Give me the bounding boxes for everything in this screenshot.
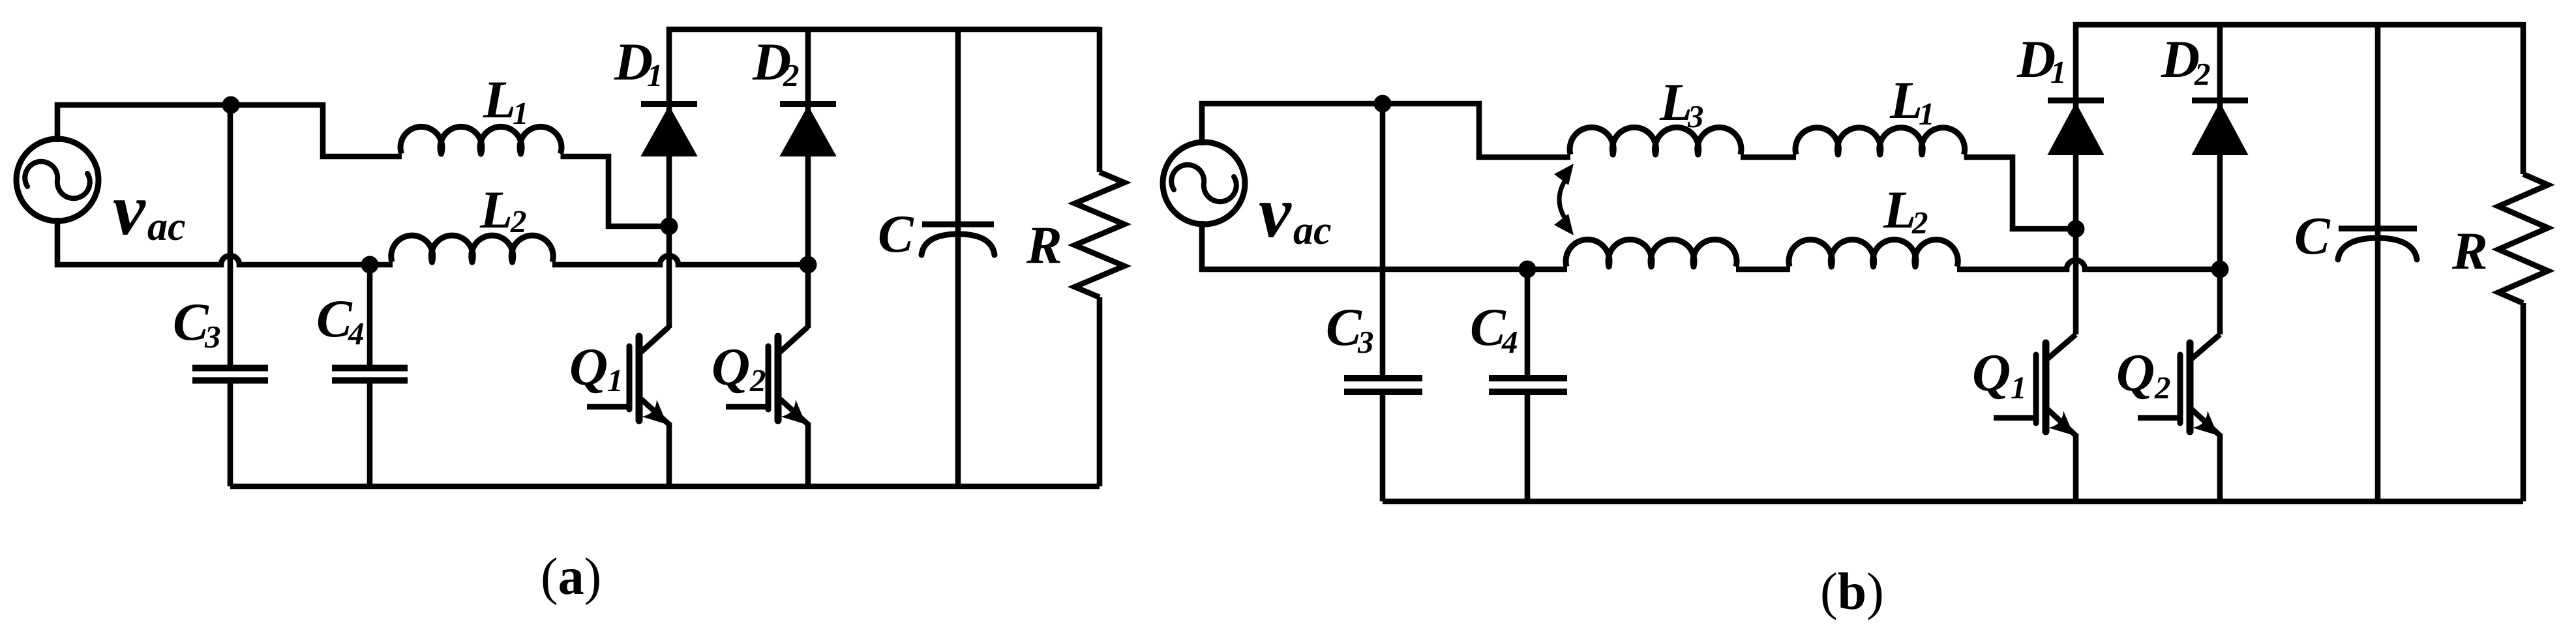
- wire L3 to L1 (b): [1741, 155, 1796, 160]
- capacitor C3 (a): [192, 105, 268, 486]
- svg-text:L: L: [1889, 70, 1923, 130]
- svg-text:1: 1: [607, 362, 623, 398]
- label L3: [1659, 72, 1704, 134]
- svg-text:Q: Q: [711, 337, 750, 396]
- label D1: [2016, 29, 2067, 90]
- svg-text:L: L: [479, 180, 513, 239]
- transistor Q2 IGBT (a): [726, 327, 808, 486]
- label Q2: [711, 337, 766, 398]
- label D2: [2161, 29, 2211, 92]
- diode D2 (a): [780, 27, 836, 328]
- wire vac bottom crossing C3 to node C4 (b): [1202, 221, 1567, 269]
- label L1: [1889, 70, 1935, 132]
- top rail (b): [2073, 22, 2523, 28]
- svg-text:C: C: [1326, 297, 1362, 357]
- wire vac bottom with hop over C3 (a): [57, 218, 393, 265]
- wire L2 to D2 node with hop over D1 branch (b): [1957, 260, 2220, 269]
- svg-text:C: C: [173, 292, 209, 351]
- diode D1 (a): [641, 27, 697, 328]
- inductor L1 (a): [400, 126, 562, 154]
- node top-left junction (b): [1374, 95, 1392, 113]
- label Q1: [1972, 343, 2027, 406]
- svg-text:2: 2: [510, 203, 527, 239]
- bottom rail (b): [1383, 499, 2523, 505]
- bottom rail (a): [230, 484, 1100, 490]
- label vac (b): [1259, 172, 1332, 253]
- svg-text:v: v: [113, 170, 146, 250]
- svg-text:1: 1: [2050, 54, 2067, 90]
- transistor Q1 IGBT (b): [1994, 334, 2076, 501]
- svg-text:(a): (a): [541, 548, 601, 606]
- node A top-left junction (a): [222, 96, 240, 114]
- label L2: [479, 180, 527, 239]
- svg-text:C: C: [1470, 297, 1506, 357]
- label Q1: [569, 337, 623, 398]
- node L1-D1-Q1 junction (a): [661, 218, 678, 235]
- svg-text:3: 3: [204, 319, 221, 355]
- svg-text:2: 2: [1911, 205, 1928, 241]
- svg-text:1: 1: [513, 95, 529, 131]
- svg-text:R: R: [2451, 221, 2488, 280]
- svg-text:ac: ac: [1293, 209, 1332, 253]
- coupling arrow between L3 and L2 (b): [1554, 164, 1574, 235]
- svg-text:Q: Q: [1972, 343, 2011, 402]
- svg-text:4: 4: [1501, 324, 1518, 360]
- capacitor C3 (b): [1344, 104, 1422, 501]
- top rail (a): [666, 27, 1100, 33]
- svg-text:C: C: [878, 204, 914, 263]
- label D2: [752, 32, 800, 93]
- resistor R load (a): [1075, 27, 1124, 486]
- diode D2 (b): [2192, 22, 2248, 334]
- capacitor C4 (a): [332, 265, 408, 486]
- svg-text:2: 2: [2194, 56, 2211, 92]
- label C3: [173, 292, 221, 355]
- label C4: [316, 289, 365, 351]
- wire between L2 windings (b): [1736, 267, 1790, 273]
- svg-text:2: 2: [783, 57, 800, 93]
- ac source Vac (b): [1163, 142, 1245, 224]
- svg-text:Q: Q: [569, 337, 608, 396]
- svg-text:R: R: [1026, 215, 1062, 274]
- inductor L2 winding a (b): [1566, 239, 1737, 267]
- svg-text:1: 1: [647, 57, 663, 93]
- wire L1 to D1 anode node (a): [561, 156, 663, 226]
- svg-text:v: v: [1259, 172, 1292, 253]
- svg-text:2: 2: [749, 362, 766, 398]
- transistor Q2 IGBT (b): [2138, 334, 2220, 501]
- transistor Q1 IGBT (a): [587, 327, 669, 486]
- node L1-D1-Q1 junction (b): [2067, 220, 2085, 238]
- svg-text:L: L: [1883, 180, 1916, 239]
- svg-text:Q: Q: [2116, 343, 2155, 402]
- inductor L1 (b): [1795, 128, 1965, 155]
- inductor L2 (a): [391, 235, 553, 262]
- capacitor C output (b): [2338, 22, 2417, 501]
- label C3: [1326, 297, 1374, 360]
- svg-text:(b): (b): [1820, 563, 1884, 621]
- wire vac top to node A and step down to L1 (a): [57, 105, 402, 156]
- label Q2: [2116, 343, 2171, 406]
- svg-text:2: 2: [2154, 370, 2171, 406]
- resistor R load (b): [2498, 22, 2548, 501]
- svg-text:ac: ac: [147, 205, 186, 249]
- wire L1 to D1 anode node (b): [1964, 157, 2069, 229]
- ac source Vac (a): [16, 139, 98, 221]
- label vac (a): [113, 170, 186, 250]
- label L1: [483, 70, 529, 131]
- svg-text:1: 1: [1919, 96, 1935, 132]
- diode D1 (b): [2048, 22, 2104, 334]
- node C4-L2 junction (b): [1519, 261, 1536, 278]
- svg-text:3: 3: [1687, 98, 1704, 134]
- label L2: [1883, 180, 1928, 241]
- svg-text:3: 3: [1357, 324, 1374, 360]
- node L2-D2-Q2 junction (a): [800, 256, 817, 274]
- inductor L2 winding b (b): [1789, 240, 1958, 267]
- svg-text:4: 4: [348, 316, 365, 351]
- svg-text:C: C: [316, 289, 353, 348]
- label D1: [614, 32, 663, 93]
- wire L2 to D2 node with hop over D1 branch (a): [552, 256, 808, 265]
- label C4: [1470, 297, 1518, 360]
- node C4-L2 junction (a): [361, 256, 379, 274]
- node L2-D2-Q2 junction (b): [2211, 261, 2229, 278]
- svg-text:L: L: [483, 70, 516, 129]
- inductor L3 (b): [1570, 127, 1741, 155]
- capacitor C output (a): [921, 27, 995, 486]
- wire vac top to node and step down to L3 (b): [1202, 104, 1570, 157]
- svg-text:1: 1: [2011, 370, 2027, 406]
- capacitor C4 (b): [1489, 269, 1567, 501]
- svg-text:C: C: [2294, 206, 2331, 265]
